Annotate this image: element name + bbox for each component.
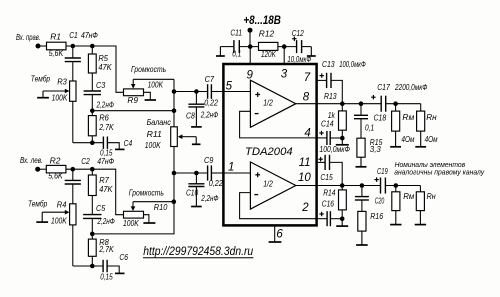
pin 6 ground: [269, 226, 284, 243]
svg-text:R11: R11: [147, 129, 163, 139]
op-amp A2 feedback to pin 2: [240, 193, 317, 219]
resistor R16: [356, 211, 383, 245]
node C8 tap: [194, 89, 199, 94]
svg-text:C18: C18: [374, 114, 387, 123]
potentiometer R3 Тембр: [31, 74, 76, 102]
input terminal Вх. лев.: [20, 156, 43, 172]
svg-text:0,1: 0,1: [365, 124, 374, 133]
svg-text:0,15: 0,15: [100, 272, 113, 281]
wire supply rail: [220, 46, 311, 48]
load resistor Rн ch2: [415, 186, 436, 225]
wire pin3 drop: [283, 47, 285, 64]
supply label +8...18V: [243, 13, 281, 27]
svg-text:2,2нФ: 2,2нФ: [97, 217, 116, 226]
resistor R7: [88, 175, 112, 196]
pin 9 label: [247, 70, 254, 82]
node wiper-midline: [172, 108, 177, 113]
capacitor C13: [317, 60, 367, 104]
svg-text:C1: C1: [69, 30, 78, 40]
svg-text:11: 11: [299, 157, 311, 169]
svg-text:47K: 47K: [98, 62, 111, 72]
svg-text:2,7K: 2,7K: [98, 122, 114, 132]
node zobel2: [360, 183, 365, 188]
svg-text:R2: R2: [50, 155, 61, 165]
capacitor C4: [100, 137, 132, 158]
svg-text:Вх. прав.: Вх. прав.: [16, 33, 41, 42]
node C13-R13: [340, 101, 345, 106]
resistor R15: [356, 138, 383, 167]
svg-text:C3: C3: [96, 80, 105, 90]
ground C12 right: [307, 47, 316, 56]
svg-text:47нФ: 47нФ: [97, 156, 114, 166]
svg-text:5,6K: 5,6K: [48, 171, 63, 181]
node A: [71, 44, 76, 49]
wire R4 to bottom rail: [72, 225, 74, 266]
potentiometer R4 Тембр: [28, 200, 76, 226]
svg-text:C15: C15: [320, 173, 333, 182]
svg-text:100K: 100K: [51, 216, 67, 226]
wire R7 to C5: [91, 196, 93, 215]
svg-text:2,2нФ: 2,2нФ: [96, 100, 115, 109]
svg-text:100,0мкФ: 100,0мкФ: [319, 145, 350, 154]
wire pin5 net: [174, 91, 223, 93]
wire C17 to loads: [386, 103, 421, 105]
svg-text:C12: C12: [292, 29, 304, 38]
svg-text:Тембр: Тембр: [28, 200, 48, 209]
node B2: [90, 167, 95, 172]
svg-text:C5: C5: [96, 203, 105, 213]
capacitor C15: [317, 155, 343, 186]
wire input to R1: [38, 45, 47, 47]
load resistor Rм ch2: [390, 186, 414, 225]
svg-text:R10: R10: [154, 202, 168, 212]
pin 7 label: [304, 72, 311, 84]
IC U1 TDA2004 body: [223, 64, 316, 225]
svg-text:Rн: Rн: [426, 113, 437, 122]
svg-text:100K: 100K: [148, 80, 164, 90]
capacitor C8: [186, 92, 219, 127]
resistor R14: [323, 186, 346, 219]
wire node B to R5: [91, 46, 93, 54]
capacitor C1: [65, 30, 98, 81]
op-amp A1: [250, 80, 295, 127]
svg-text:100K: 100K: [52, 92, 68, 102]
svg-text:0,22: 0,22: [209, 179, 223, 188]
node R13-C14: [336, 136, 349, 145]
node zobel1: [359, 101, 364, 106]
capacitor C7: [204, 74, 218, 108]
pin 8 output wire: [296, 91, 317, 103]
node R10 wiper join: [172, 199, 177, 204]
potentiometer R10 Громкость: [123, 189, 174, 229]
load resistor Rн ch1: [415, 104, 438, 147]
svg-text:4Ом: 4Ом: [401, 135, 414, 144]
capacitor C6: [100, 252, 128, 281]
note text: [394, 160, 485, 176]
wire R3 to bottom rail: [72, 101, 74, 142]
resistor R1: [47, 32, 67, 59]
pin 10 output wire: [296, 172, 317, 185]
node R14-C16: [336, 216, 348, 226]
svg-text:http://299792458.3dn.ru: http://299792458.3dn.ru: [143, 246, 254, 258]
ground C11 left: [216, 47, 225, 56]
svg-text:C16: C16: [322, 199, 335, 208]
svg-text:C13: C13: [322, 60, 335, 69]
svg-text:C7: C7: [205, 74, 215, 84]
url text: [143, 246, 254, 258]
svg-text:100K: 100K: [123, 218, 139, 228]
node rail-pin3: [282, 44, 287, 49]
pin 1 wire: [223, 162, 250, 174]
capacitor C10: [186, 173, 219, 207]
node wiper-pin5: [172, 89, 177, 94]
wire mid node line: [92, 110, 174, 112]
svg-text:Rм: Rм: [403, 192, 414, 201]
wire R1 to node A to node B to R9: [66, 46, 124, 92]
svg-text:4Ом: 4Ом: [425, 135, 438, 144]
capacitor C20: [355, 186, 385, 212]
node rail-pin9: [248, 44, 253, 49]
resistor R8: [88, 234, 114, 266]
svg-text:4: 4: [304, 127, 310, 139]
load resistor Rм ch1: [390, 104, 414, 147]
pin 5 wire: [223, 80, 250, 92]
capacitor C19: [374, 167, 388, 194]
wire R5 to C3: [91, 73, 93, 91]
svg-text:5,6K: 5,6K: [49, 48, 64, 58]
svg-text:9: 9: [247, 70, 254, 82]
svg-text:Громкость: Громкость: [131, 65, 166, 74]
wire C19 to loads: [385, 185, 420, 187]
svg-text:1k: 1k: [328, 111, 336, 120]
supply terminal: [248, 28, 253, 47]
node R11-pin1: [172, 171, 177, 176]
svg-text:C20: C20: [375, 196, 385, 205]
resistor R5: [88, 53, 111, 73]
svg-text:+8...18В: +8...18В: [243, 13, 281, 27]
svg-text:2200,0мкФ: 2200,0мкФ: [394, 83, 428, 92]
wire node B2 to R7: [91, 169, 93, 175]
svg-text:R4: R4: [57, 200, 67, 210]
node under C5: [90, 232, 95, 237]
node R6 bottom: [90, 140, 95, 145]
wire pin9 drop: [249, 47, 251, 64]
capacitor C17: [371, 83, 428, 112]
svg-text:1: 1: [228, 162, 234, 174]
wire bottom rail ch2: [73, 265, 103, 267]
svg-text:C14: C14: [321, 120, 334, 129]
svg-text:Rн: Rн: [427, 192, 436, 201]
svg-text:R1: R1: [50, 32, 61, 42]
capacitor C3: [84, 80, 115, 111]
capacitor C14: [317, 120, 351, 154]
svg-text:C17: C17: [377, 83, 390, 92]
capacitor C12: [287, 29, 311, 64]
svg-text:100K: 100K: [145, 140, 161, 150]
resistor R12: [259, 30, 278, 60]
node C15-R14: [340, 183, 345, 188]
wire R11 bottom to left channel: [92, 147, 174, 234]
svg-text:Вх. лев.: Вх. лев.: [20, 156, 43, 165]
svg-text:R13: R13: [324, 92, 337, 101]
svg-text:5: 5: [226, 80, 233, 92]
wire pin1 net: [174, 172, 223, 174]
capacitor C5: [83, 203, 115, 234]
potentiometer R11 Баланс: [145, 118, 201, 150]
svg-text:3: 3: [281, 68, 288, 80]
wire pin8 rail: [317, 103, 382, 105]
capacitor C9: [204, 155, 223, 188]
svg-text:120K: 120K: [261, 50, 276, 59]
op-amp A2: [250, 162, 295, 209]
wire input to R2: [38, 168, 47, 170]
svg-text:2,2нФ: 2,2нФ: [200, 194, 219, 203]
svg-text:R9: R9: [127, 95, 138, 105]
svg-text:C2: C2: [81, 156, 90, 166]
svg-text:Баланс: Баланс: [147, 118, 171, 127]
svg-text:C11: C11: [230, 29, 242, 38]
svg-text:1/2: 1/2: [263, 180, 273, 189]
resistor R2: [46, 155, 66, 180]
pin 11 label: [299, 157, 311, 169]
IC label TDA2004: [245, 146, 293, 158]
capacitor C18: [354, 104, 387, 139]
wire bottom rail ch1: [73, 142, 104, 144]
capacitor C16: [317, 199, 343, 226]
svg-text:47K: 47K: [99, 184, 112, 194]
svg-text:C19: C19: [377, 167, 388, 176]
svg-text:C8: C8: [186, 111, 195, 121]
node R8 bottom: [90, 264, 95, 269]
wire R9 wiper down to R11: [173, 79, 175, 127]
svg-text:R12: R12: [259, 30, 275, 39]
wire R2 to node A2 to R10: [66, 169, 124, 215]
svg-text:Тембр: Тембр: [31, 74, 51, 83]
svg-text:3,3: 3,3: [370, 145, 381, 154]
capacitor C2: [65, 156, 115, 204]
node loads2: [394, 183, 399, 188]
resistor R13: [324, 92, 346, 138]
svg-text:R3: R3: [57, 77, 67, 87]
op-amp A1 feedback to pin 4: [240, 111, 317, 139]
node loads1: [393, 101, 398, 106]
wire pin10 rail: [317, 185, 381, 187]
node C10 tap: [194, 171, 199, 176]
svg-text:6: 6: [276, 229, 283, 241]
node B: [90, 44, 95, 49]
pin 3 label: [281, 68, 288, 80]
resistor R6: [88, 111, 114, 143]
svg-text:R16: R16: [370, 212, 383, 221]
node A2: [71, 167, 76, 172]
svg-text:Громкость: Громкость: [129, 189, 164, 198]
svg-text:TDA2004: TDA2004: [245, 146, 293, 158]
svg-text:C9: C9: [204, 155, 214, 165]
capacitor C11: [230, 29, 242, 59]
input terminal Вх. прав.: [16, 33, 41, 48]
svg-text:C4: C4: [124, 138, 133, 148]
svg-text:Rм: Rм: [402, 113, 414, 122]
svg-text:10: 10: [298, 172, 311, 184]
node under C3: [90, 108, 95, 113]
svg-text:47нФ: 47нФ: [81, 30, 98, 40]
svg-text:2,7K: 2,7K: [98, 244, 114, 254]
svg-text:2,2нФ: 2,2нФ: [200, 111, 219, 120]
svg-text:R14: R14: [323, 189, 336, 198]
svg-text:7: 7: [304, 72, 311, 84]
svg-text:1/2: 1/2: [263, 99, 273, 108]
svg-text:2: 2: [301, 202, 309, 214]
svg-text:C6: C6: [119, 252, 128, 262]
svg-text:аналогичны правому каналу: аналогичны правому каналу: [394, 168, 485, 177]
svg-text:0,22: 0,22: [204, 99, 218, 108]
svg-text:100,0мкФ: 100,0мкФ: [339, 60, 366, 69]
potentiometer R9 Громкость: [124, 65, 175, 105]
svg-text:8: 8: [303, 91, 310, 103]
